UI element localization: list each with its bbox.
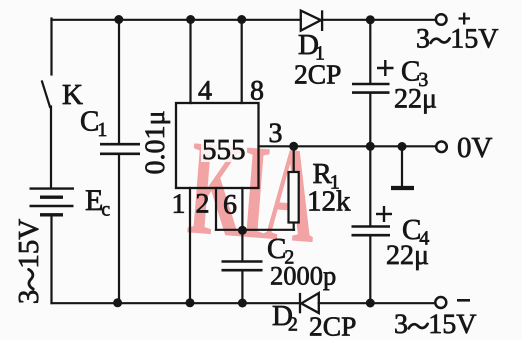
wire R1 bottom stub [293, 223, 295, 230]
pin 1 [174, 194, 184, 213]
value 3~15V left [19, 219, 39, 303]
watermark KIA [187, 143, 319, 242]
C4 plus polarity [376, 206, 392, 222]
wire pin3 / 0V rail [259, 145, 437, 147]
label C3 [402, 61, 427, 86]
wire pin6 column [241, 188, 243, 230]
diode D1 [301, 10, 322, 31]
pin 2 [197, 194, 208, 213]
wire bottom rail right segment [319, 302, 435, 304]
junction bottom rail pin1 [186, 298, 195, 307]
pin 4 [199, 81, 212, 99]
junction bottom rail C2 [238, 299, 247, 308]
wire pin8 column [241, 20, 243, 104]
pin 6 [224, 195, 236, 214]
junction top rail pin8 [237, 15, 246, 24]
junction pin6 node [238, 226, 247, 235]
junction 0V rail C3C4 [366, 142, 375, 151]
value 2CP bottom [310, 317, 355, 336]
value 2000p [271, 267, 335, 290]
wire pin1 column [189, 188, 191, 303]
wire left branch lower [50, 216, 52, 304]
label C4 [403, 220, 429, 245]
label R1 [313, 164, 338, 189]
value 22u top [395, 89, 436, 114]
junction 0V rail R1 [289, 142, 298, 151]
resistor R1 [289, 172, 299, 223]
label minus bottom [457, 299, 470, 302]
wire C4 column upper [369, 146, 371, 226]
wire C2 column lower [241, 271, 243, 304]
value 3~15V bottom [395, 315, 476, 334]
label D2 [273, 306, 297, 331]
junction bottom rail C1 [113, 298, 122, 307]
wire C1 column lower [118, 155, 120, 304]
IC label 555 [204, 140, 245, 159]
capacitor C2 [222, 262, 263, 271]
label D1 [299, 35, 324, 60]
junction bottom rail C4 [366, 299, 375, 308]
junction top rail C3 [366, 15, 375, 24]
junction top rail pin4 [186, 15, 195, 24]
value 2CP top [295, 65, 340, 84]
wire R1 top stub [293, 146, 295, 172]
ground [391, 186, 414, 190]
label Ec [86, 190, 110, 215]
diode D2 [300, 293, 319, 313]
wire top rail right segment [322, 19, 436, 21]
label plus top [459, 13, 471, 25]
terminal minus output [435, 297, 446, 308]
wire C4 column lower [369, 236, 371, 304]
wire pin2-pin6-R1 horizontal [216, 229, 294, 231]
wire C3 column upper [369, 20, 371, 84]
value 12k [310, 190, 351, 210]
label C2 [268, 239, 293, 264]
wire pin2 column [215, 188, 217, 230]
label K [63, 85, 83, 104]
terminal 0V output [436, 142, 447, 153]
value 22u bottom [387, 246, 428, 271]
label C1 [81, 111, 106, 136]
wire C3 column lower [369, 93, 371, 146]
value 0.01u [145, 112, 170, 174]
label 0V [458, 138, 492, 158]
pin 8 [251, 81, 263, 100]
IC 555 U1 [176, 103, 259, 188]
capacitor C3 [352, 84, 390, 93]
wire top rail left segment [52, 19, 301, 21]
value 3~15V top [417, 29, 498, 48]
wire left branch middle [50, 107, 52, 189]
switch K blade [42, 82, 50, 108]
C3 plus polarity [377, 60, 394, 76]
wire ground stub [401, 146, 403, 186]
pin 3 [270, 124, 282, 143]
capacitor C1 [100, 144, 140, 154]
wire C2 column upper [241, 230, 243, 261]
terminal plus output [436, 14, 447, 25]
wire left branch upper [50, 19, 52, 75]
junction 0V rail ground [398, 142, 407, 151]
battery Ec [30, 189, 75, 215]
wire bottom rail left segment [52, 302, 301, 304]
capacitor C4 [352, 227, 391, 236]
junction top rail C1 [114, 15, 123, 24]
wire C1 column upper [118, 20, 120, 144]
wire pin4 column [189, 20, 191, 104]
